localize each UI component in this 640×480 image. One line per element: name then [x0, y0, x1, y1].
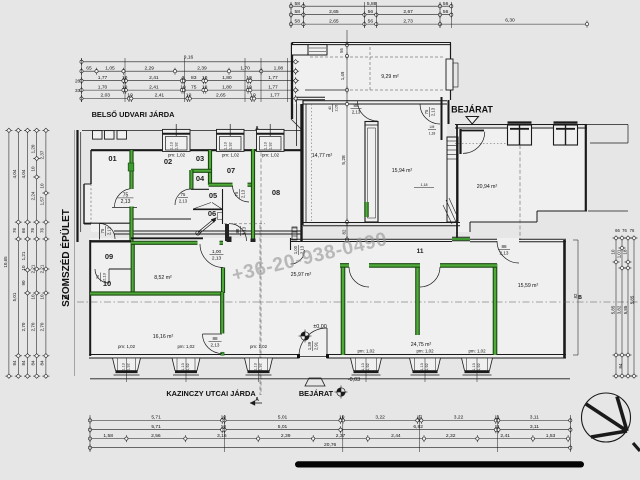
svg-text:2,21: 2,21: [30, 264, 35, 273]
svg-text:56: 56: [339, 48, 344, 53]
svg-text:1,77: 1,77: [268, 84, 278, 90]
svg-text:56: 56: [368, 9, 374, 15]
svg-text:1,70: 1,70: [98, 84, 108, 90]
svg-text:1,77: 1,77: [268, 75, 278, 81]
svg-text:2,44: 2,44: [391, 433, 401, 439]
svg-text:6,82: 6,82: [413, 424, 423, 430]
svg-text:2,41: 2,41: [149, 75, 159, 81]
svg-text:66: 66: [615, 228, 620, 233]
svg-text:2,67: 2,67: [403, 9, 413, 15]
svg-text:1,13: 1,13: [264, 142, 268, 149]
svg-text:pm: 1,02: pm: 1,02: [468, 348, 486, 353]
svg-text:20,76: 20,76: [324, 442, 337, 448]
svg-text:10: 10: [40, 183, 45, 189]
svg-text:2,13: 2,13: [430, 107, 435, 116]
svg-text:88: 88: [354, 103, 359, 108]
svg-text:8,52 m²: 8,52 m²: [154, 275, 172, 281]
svg-text:83: 83: [191, 75, 197, 81]
svg-text:15,94 m²: 15,94 m²: [392, 168, 413, 174]
svg-text:1,13: 1,13: [181, 363, 185, 370]
svg-text:pm: 1,02: pm: 1,02: [262, 153, 280, 158]
svg-text:4,04: 4,04: [12, 169, 17, 178]
svg-text:2,41: 2,41: [155, 93, 165, 99]
svg-text:1,92: 1,92: [366, 363, 370, 370]
svg-text:02: 02: [164, 157, 172, 166]
svg-text:2,56: 2,56: [151, 433, 161, 439]
svg-text:82: 82: [573, 293, 578, 298]
svg-text:18: 18: [623, 249, 628, 254]
svg-text:84: 84: [40, 360, 45, 366]
svg-text:1,92: 1,92: [269, 142, 273, 149]
svg-text:1,08: 1,08: [274, 65, 284, 71]
svg-text:84: 84: [12, 360, 17, 366]
svg-text:2,70: 2,70: [30, 322, 35, 331]
svg-text:03: 03: [196, 154, 204, 163]
svg-text:06: 06: [208, 209, 216, 218]
svg-text:07: 07: [227, 166, 235, 175]
svg-text:LM: LM: [430, 125, 435, 129]
svg-text:10: 10: [30, 294, 35, 300]
svg-text:84: 84: [30, 360, 35, 366]
svg-text:1,13: 1,13: [224, 142, 228, 149]
svg-text:1,05: 1,05: [105, 65, 115, 71]
svg-text:pm: 1,02: pm: 1,02: [118, 344, 136, 349]
svg-text:90: 90: [21, 280, 26, 286]
svg-text:40: 40: [328, 106, 332, 110]
svg-text:2,13: 2,13: [211, 342, 220, 347]
svg-text:09: 09: [105, 252, 113, 261]
svg-text:1,21: 1,21: [21, 251, 26, 260]
svg-text:56: 56: [443, 9, 449, 15]
svg-text:2,37: 2,37: [336, 433, 346, 439]
svg-text:3,11: 3,11: [530, 415, 539, 421]
svg-text:2,32: 2,32: [446, 433, 456, 439]
svg-text:1,39: 1,39: [307, 341, 312, 350]
svg-text:75: 75: [181, 192, 186, 197]
svg-text:05: 05: [209, 191, 217, 200]
svg-text:9,29 m²: 9,29 m²: [381, 74, 399, 80]
svg-text:5,71: 5,71: [151, 415, 161, 421]
svg-text:3,82: 3,82: [617, 305, 622, 314]
svg-text:1,92: 1,92: [175, 142, 179, 149]
svg-text:2,13: 2,13: [121, 199, 131, 205]
svg-text:1,20: 1,20: [30, 144, 35, 153]
svg-text:82: 82: [342, 229, 347, 234]
svg-text:±0,00: ±0,00: [313, 324, 326, 330]
svg-text:25,97 m²: 25,97 m²: [291, 272, 312, 278]
svg-text:5,85: 5,85: [623, 305, 628, 314]
svg-text:65: 65: [86, 65, 92, 71]
svg-text:1,92: 1,92: [477, 363, 481, 370]
svg-text:56: 56: [368, 18, 374, 24]
svg-text:88: 88: [501, 244, 507, 249]
svg-text:6,30: 6,30: [505, 18, 515, 24]
svg-text:5,85: 5,85: [611, 305, 616, 314]
svg-text:BEJÁRAT: BEJÁRAT: [299, 389, 334, 398]
svg-text:1,80: 1,80: [222, 84, 232, 90]
svg-text:2,39: 2,39: [281, 433, 291, 439]
svg-text:2,41: 2,41: [500, 433, 510, 439]
svg-text:75: 75: [100, 228, 105, 233]
svg-text:2,13: 2,13: [241, 226, 246, 235]
svg-text:66: 66: [21, 228, 26, 234]
svg-text:14,77 m²: 14,77 m²: [312, 153, 333, 159]
svg-text:1,92: 1,92: [186, 363, 190, 370]
svg-text:5,85: 5,85: [630, 295, 635, 304]
svg-text:84: 84: [618, 363, 623, 368]
svg-text:1,57: 1,57: [40, 196, 45, 205]
svg-text:24,75 m²: 24,75 m²: [411, 342, 432, 348]
svg-text:84: 84: [21, 360, 26, 366]
svg-text:76: 76: [630, 228, 635, 233]
svg-text:1,13: 1,13: [420, 363, 424, 370]
svg-text:1,13: 1,13: [254, 363, 258, 370]
svg-text:2,73: 2,73: [403, 18, 413, 24]
svg-text:1,92: 1,92: [127, 363, 131, 370]
svg-text:76: 76: [12, 228, 17, 234]
svg-text:-0,03: -0,03: [348, 377, 360, 383]
svg-text:1,77: 1,77: [98, 75, 108, 81]
svg-text:2,21: 2,21: [40, 264, 45, 273]
svg-text:BELSŐ UDVARI JÁRDA: BELSŐ UDVARI JÁRDA: [92, 110, 175, 119]
svg-text:76: 76: [622, 228, 627, 233]
svg-text:1,92: 1,92: [229, 142, 233, 149]
svg-text:2,24: 2,24: [30, 191, 35, 200]
svg-text:1,49: 1,49: [340, 71, 345, 80]
svg-text:08: 08: [272, 188, 280, 197]
svg-text:2,05: 2,05: [334, 105, 338, 112]
svg-text:2,13: 2,13: [352, 109, 361, 114]
svg-text:10: 10: [21, 265, 26, 271]
svg-text:1,18: 1,18: [429, 131, 436, 135]
svg-text:3,16: 3,16: [217, 433, 227, 439]
svg-text:SZOMSZÉD ÉPÜLET: SZOMSZÉD ÉPÜLET: [59, 209, 72, 307]
svg-text:2,41: 2,41: [149, 84, 159, 90]
svg-text:88: 88: [235, 228, 240, 233]
svg-text:1,58: 1,58: [103, 433, 113, 439]
svg-text:KAZINCZY UTCAI JÁRDA: KAZINCZY UTCAI JÁRDA: [166, 389, 256, 398]
svg-text:1,77: 1,77: [270, 93, 280, 99]
svg-text:1,00: 1,00: [212, 249, 222, 255]
svg-text:1,01: 1,01: [617, 249, 622, 258]
svg-text:2,03: 2,03: [100, 93, 110, 99]
svg-text:2,65: 2,65: [329, 9, 339, 15]
svg-text:2,13: 2,13: [500, 250, 509, 255]
svg-text:pm: 1,02: pm: 1,02: [357, 348, 375, 353]
svg-text:5,01: 5,01: [278, 424, 288, 430]
svg-text:2,13: 2,13: [106, 226, 111, 235]
svg-text:4,04: 4,04: [21, 169, 26, 178]
svg-text:20,94 m²: 20,94 m²: [477, 184, 498, 190]
svg-text:pm: 1,02: pm: 1,02: [222, 153, 240, 158]
svg-text:76: 76: [39, 228, 44, 234]
svg-text:2,39: 2,39: [197, 65, 207, 71]
svg-text:11: 11: [417, 248, 424, 255]
svg-text:10: 10: [30, 166, 35, 172]
svg-text:pm: 1,02: pm: 1,02: [250, 344, 268, 349]
svg-text:88: 88: [212, 336, 218, 341]
svg-text:10,65: 10,65: [3, 256, 8, 268]
svg-text:5,01: 5,01: [12, 292, 17, 301]
svg-text:3,11: 3,11: [530, 424, 539, 430]
svg-text:BEJÁRAT: BEJÁRAT: [451, 105, 493, 115]
svg-text:75: 75: [123, 192, 129, 198]
svg-text:5,71: 5,71: [151, 424, 161, 430]
svg-text:B: B: [578, 295, 582, 301]
svg-text:76: 76: [30, 228, 35, 234]
svg-text:01: 01: [108, 154, 116, 163]
svg-text:2,13: 2,13: [179, 198, 188, 203]
svg-text:2,29: 2,29: [144, 65, 154, 71]
svg-text:58: 58: [294, 18, 300, 24]
svg-text:2,91: 2,91: [313, 341, 318, 350]
svg-text:1,13: 1,13: [170, 142, 174, 149]
svg-text:10: 10: [103, 279, 111, 288]
svg-text:58: 58: [294, 9, 300, 15]
svg-text:75: 75: [234, 191, 239, 196]
svg-text:75: 75: [424, 109, 429, 114]
svg-text:2,70: 2,70: [21, 322, 26, 331]
svg-text:3,22: 3,22: [375, 415, 385, 421]
svg-text:1,13: 1,13: [472, 363, 476, 370]
svg-text:15,59 m²: 15,59 m²: [518, 283, 539, 289]
svg-text:5,01: 5,01: [278, 415, 288, 421]
svg-text:1,92: 1,92: [259, 363, 263, 370]
svg-text:3,22: 3,22: [454, 415, 464, 421]
svg-text:1,53: 1,53: [546, 433, 556, 439]
svg-text:1,18: 1,18: [421, 183, 428, 187]
svg-text:75: 75: [191, 84, 197, 90]
svg-text:1,92: 1,92: [425, 363, 429, 370]
svg-text:A: A: [255, 397, 259, 403]
svg-text:1,13: 1,13: [122, 363, 126, 370]
svg-text:04: 04: [196, 174, 205, 183]
svg-text:2,37: 2,37: [40, 150, 45, 159]
svg-text:2,65: 2,65: [216, 93, 226, 99]
svg-text:75: 75: [95, 274, 100, 279]
svg-text:pm: 1,02: pm: 1,02: [177, 344, 195, 349]
svg-text:1,13: 1,13: [361, 363, 365, 370]
svg-text:2,13: 2,13: [212, 255, 222, 261]
svg-text:1,80: 1,80: [222, 75, 232, 81]
svg-text:10: 10: [40, 294, 45, 300]
svg-text:2,13: 2,13: [240, 189, 245, 198]
svg-text:10: 10: [611, 249, 616, 254]
svg-text:5,28: 5,28: [341, 155, 347, 165]
svg-text:2,70: 2,70: [40, 322, 45, 331]
svg-text:2,65: 2,65: [329, 18, 339, 24]
svg-text:16,16 m²: 16,16 m²: [153, 334, 174, 340]
svg-text:pm: 1,02: pm: 1,02: [416, 348, 434, 353]
svg-text:9,16: 9,16: [184, 55, 194, 61]
